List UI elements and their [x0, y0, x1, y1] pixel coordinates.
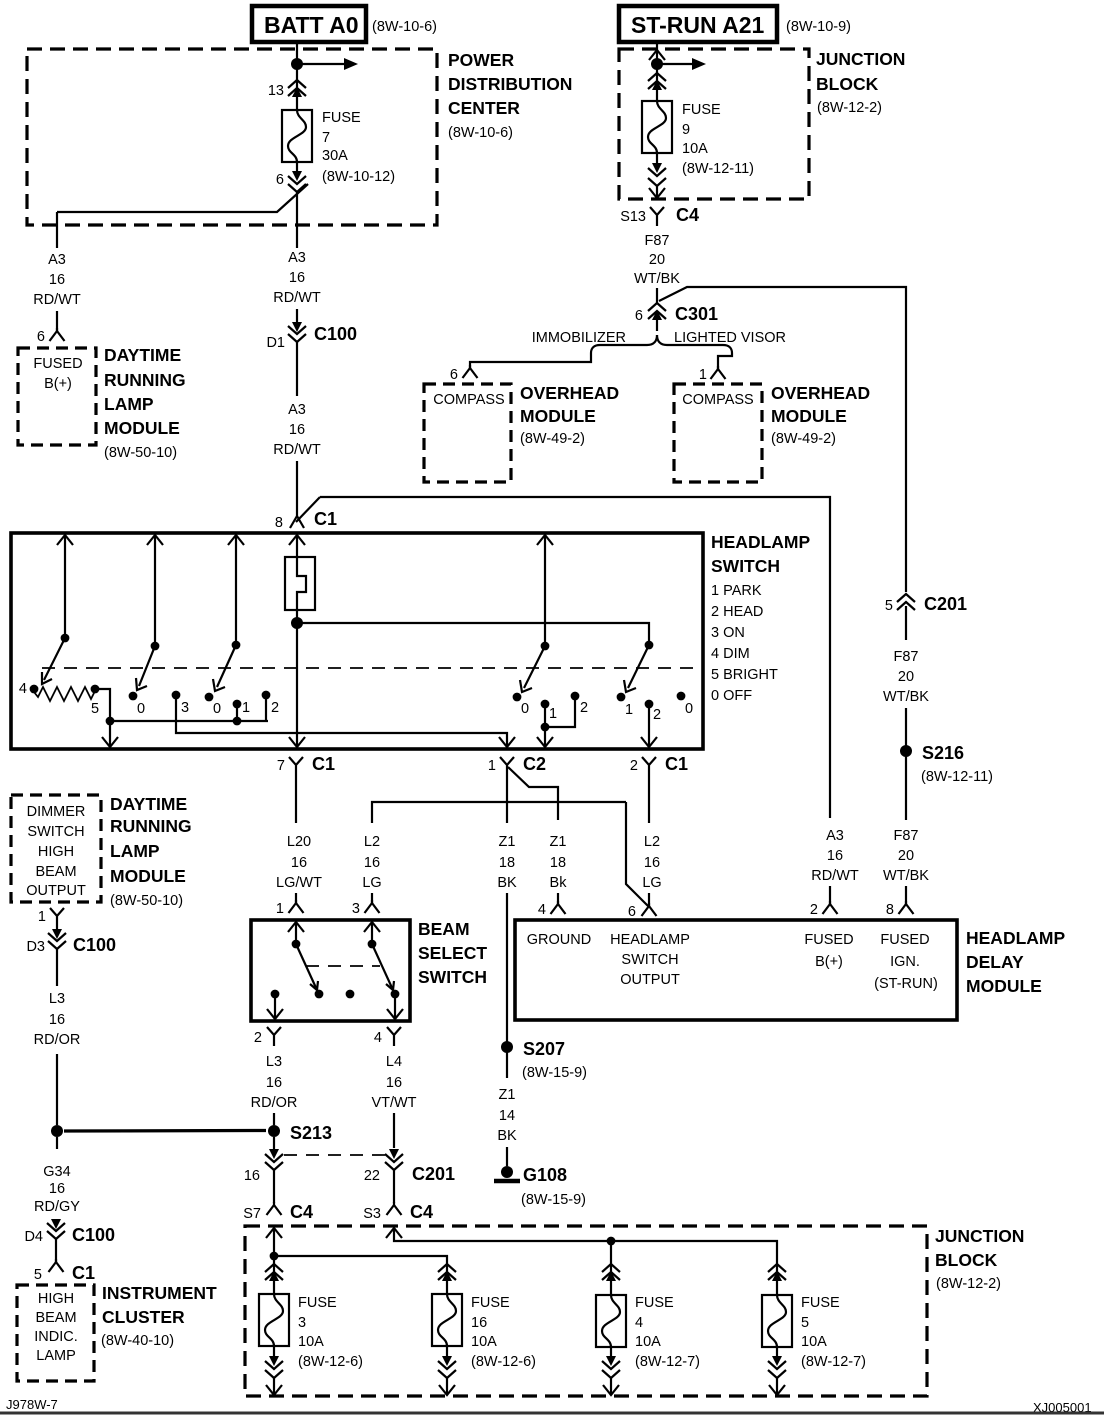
svg-text:(8W-40-10): (8W-40-10)	[101, 1333, 174, 1349]
svg-text:2 HEAD: 2 HEAD	[711, 604, 763, 620]
connector C301 pin 6	[635, 303, 718, 324]
switch arm 2	[136, 646, 155, 690]
wire to junction	[56, 1054, 58, 1125]
svg-text:ST-RUN A21: ST-RUN A21	[631, 12, 765, 38]
svg-text:4 DIM: 4 DIM	[711, 646, 750, 662]
dimmer switch output box (DRL module)	[11, 794, 192, 909]
svg-text:(8W-10-6): (8W-10-6)	[448, 125, 513, 141]
svg-text:F87: F87	[894, 649, 919, 665]
svg-text:C2: C2	[523, 754, 546, 774]
svg-text:(8W-10-12): (8W-10-12)	[322, 169, 395, 185]
svg-text:A3: A3	[48, 252, 66, 268]
wire L2 to delay module pin 6	[648, 893, 650, 906]
svg-text:Z1: Z1	[499, 834, 516, 850]
splice S213	[268, 1123, 332, 1143]
node BATT A0	[252, 6, 437, 42]
wire to C2 output	[544, 727, 546, 748]
wire ST-RUN into junction block	[656, 42, 658, 101]
svg-text:DELAY: DELAY	[966, 952, 1024, 972]
svg-text:16: 16	[244, 1168, 260, 1184]
svg-text:LIGHTED VISOR: LIGHTED VISOR	[674, 330, 786, 346]
fuse F7 30A	[282, 110, 312, 162]
svg-text:FUSE: FUSE	[801, 1295, 840, 1311]
contact 0 (first)	[129, 692, 145, 717]
svg-text:L4: L4	[386, 1054, 402, 1070]
connector C1 pin 5	[34, 1259, 95, 1283]
svg-text:6: 6	[628, 904, 636, 920]
svg-text:C100: C100	[73, 935, 116, 955]
wire to DRL module	[56, 311, 58, 331]
svg-text:C201: C201	[924, 594, 967, 614]
svg-text:DAYTIME: DAYTIME	[104, 345, 181, 365]
svg-text:IMMOBILIZER: IMMOBILIZER	[532, 330, 626, 346]
svg-text:C4: C4	[290, 1202, 313, 1222]
svg-text:G34: G34	[43, 1164, 70, 1180]
pin 4 connector (ground)	[538, 901, 566, 918]
svg-text:MODULE: MODULE	[771, 406, 847, 426]
svg-text:16: 16	[289, 270, 305, 286]
svg-text:A3: A3	[288, 250, 306, 266]
svg-text:6: 6	[450, 367, 458, 383]
arrow tap right	[657, 63, 692, 65]
svg-text:(8W-50-10): (8W-50-10)	[110, 893, 183, 909]
svg-text:6: 6	[276, 172, 284, 188]
svg-text:5 BRIGHT: 5 BRIGHT	[711, 667, 778, 683]
chevrons above fuse 16	[438, 1262, 456, 1294]
svg-text:F87: F87	[645, 233, 670, 249]
svg-text:COMPASS: COMPASS	[682, 392, 753, 408]
svg-text:SWITCH: SWITCH	[418, 967, 487, 987]
beam select dashed link	[306, 965, 380, 967]
wire to C4 S3	[393, 1170, 395, 1203]
chevrons below fuse 4	[602, 1347, 620, 1395]
dashed actuator line in switch	[42, 667, 700, 669]
wire bus to fuse 16	[274, 1256, 447, 1262]
contact 2 (dim circuit)	[545, 692, 588, 727]
svg-text:WT/BK: WT/BK	[634, 271, 680, 287]
instrument cluster (high beam indicator) box	[17, 1283, 217, 1381]
svg-text:A3: A3	[288, 402, 306, 418]
svg-text:3: 3	[298, 1315, 306, 1331]
svg-text:10A: 10A	[471, 1334, 497, 1350]
svg-text:(8W-10-6): (8W-10-6)	[372, 19, 437, 35]
junction node right bus	[607, 1237, 616, 1246]
svg-text:3: 3	[181, 700, 189, 716]
svg-text:30A: 30A	[322, 148, 348, 164]
svg-text:2: 2	[630, 758, 638, 774]
svg-text:1: 1	[276, 901, 284, 917]
svg-text:2: 2	[580, 700, 588, 716]
wire C1-2 down	[648, 776, 650, 823]
svg-text:4: 4	[538, 902, 546, 918]
svg-text:FUSED: FUSED	[880, 932, 929, 948]
beam select pole 1	[288, 922, 304, 948]
svg-text:DISTRIBUTION: DISTRIBUTION	[448, 74, 572, 94]
ground G108	[494, 1165, 586, 1208]
wire to delay module pin 8	[905, 886, 907, 904]
svg-text:LAMP: LAMP	[36, 1348, 76, 1364]
svg-text:5: 5	[801, 1315, 809, 1331]
chevrons above fuse 5	[768, 1262, 786, 1295]
svg-text:HEADLAMP: HEADLAMP	[966, 928, 1065, 948]
svg-text:OVERHEAD: OVERHEAD	[771, 383, 870, 403]
svg-text:(8W-49-2): (8W-49-2)	[771, 431, 836, 447]
chevrons above fuse 9	[648, 73, 666, 90]
overhead module (left compass) box	[424, 383, 619, 482]
svg-text:RUNNING: RUNNING	[110, 816, 192, 836]
svg-text:16: 16	[49, 272, 65, 288]
connector C201 pin 5	[885, 594, 967, 614]
wiper contact element	[285, 557, 315, 623]
switch pole 5 (fed from bus)	[645, 641, 654, 650]
svg-text:0: 0	[213, 701, 221, 717]
wire fuse7 down through PDC	[296, 192, 298, 248]
svg-text:L2: L2	[364, 834, 380, 850]
junction node in PDC	[291, 58, 303, 70]
svg-text:BEAM: BEAM	[35, 1310, 76, 1326]
wire to C4 S7	[273, 1170, 275, 1203]
arrow into junction block border	[649, 50, 665, 60]
wire label L3 16 RD/OR (left)	[34, 991, 81, 1048]
page bottom rule	[0, 1412, 1104, 1415]
svg-text:A3: A3	[826, 828, 844, 844]
pin 6 connector (headlamp switch output)	[628, 903, 657, 920]
headlamp delay module box	[515, 920, 1065, 1020]
svg-text:RD/OR: RD/OR	[34, 1032, 81, 1048]
svg-text:16: 16	[289, 422, 305, 438]
wire C100 down	[296, 342, 298, 396]
svg-text:20: 20	[649, 252, 665, 268]
pin 13 connector chevrons	[268, 80, 306, 99]
svg-text:(8W-15-9): (8W-15-9)	[522, 1065, 587, 1081]
pin 1 connector of right overhead module	[699, 366, 726, 383]
svg-text:D1: D1	[266, 335, 285, 351]
wire to delay module pin 4	[557, 893, 559, 904]
contact 1 (dim circuit)	[541, 700, 557, 732]
svg-text:1: 1	[699, 367, 707, 383]
svg-text:(8W-12-2): (8W-12-2)	[817, 100, 882, 116]
wire label L20 16 LG/WT	[276, 834, 322, 891]
wire to beam select pin 3	[371, 893, 373, 903]
wire C201 down	[905, 606, 907, 640]
svg-text:FUSE: FUSE	[471, 1295, 510, 1311]
switch arm 5	[624, 645, 649, 692]
junction node high beam	[51, 1125, 63, 1137]
svg-text:C1: C1	[665, 754, 688, 774]
wire branch diagonal to left feed	[57, 184, 308, 212]
svg-text:16: 16	[644, 855, 660, 871]
svg-text:LAMP: LAMP	[110, 841, 160, 861]
pin 2 connector beam select	[254, 1027, 281, 1046]
svg-text:(8W-12-2): (8W-12-2)	[936, 1276, 1001, 1292]
svg-text:G108: G108	[523, 1165, 567, 1185]
svg-text:S3: S3	[363, 1206, 381, 1222]
svg-text:C1: C1	[72, 1263, 95, 1283]
svg-text:MODULE: MODULE	[110, 866, 186, 886]
svg-text:HEADLAMP: HEADLAMP	[610, 932, 690, 948]
svg-text:FUSED: FUSED	[33, 356, 82, 372]
wire label F87 20 WT/BK (top)	[634, 233, 680, 287]
svg-text:SWITCH: SWITCH	[27, 824, 84, 840]
net split brace under C301	[591, 335, 657, 355]
svg-text:1: 1	[625, 702, 633, 718]
wire to left compass module	[470, 355, 591, 368]
arrow into JB at S3	[386, 1228, 402, 1238]
svg-text:POWER: POWER	[448, 50, 514, 70]
contact 0 (second)	[205, 693, 221, 717]
svg-text:20: 20	[898, 669, 914, 685]
svg-text:BLOCK: BLOCK	[935, 1250, 998, 1270]
svg-text:D4: D4	[24, 1229, 43, 1245]
svg-text:13: 13	[268, 83, 284, 99]
wire branch low beam to beam select pin 3	[372, 802, 626, 823]
svg-text:J978W-7: J978W-7	[6, 1397, 58, 1412]
pin 2 connector (fused B+)	[810, 901, 838, 918]
svg-text:L3: L3	[49, 991, 65, 1007]
fuse F9 10A	[642, 101, 672, 153]
switch pole wire 2	[147, 535, 163, 650]
beam select arm 1	[296, 944, 318, 990]
wire label G34 16 RD/GY	[34, 1164, 80, 1215]
svg-text:16: 16	[471, 1315, 487, 1331]
svg-text:WT/BK: WT/BK	[883, 868, 929, 884]
wire branch from C1-8 to delay module fused B+	[320, 497, 830, 818]
arrow at junction block lower border	[649, 188, 665, 198]
svg-text:RD/WT: RD/WT	[811, 868, 859, 884]
wire label A3 16 RD/WT (center)	[273, 250, 321, 306]
svg-text:GROUND: GROUND	[527, 932, 591, 948]
svg-text:10A: 10A	[298, 1334, 324, 1350]
pin 6 connector of DRL module	[37, 328, 65, 345]
contact 0 (fourth)	[677, 692, 693, 717]
svg-text:BEAM: BEAM	[418, 919, 470, 939]
svg-text:S213: S213	[290, 1123, 332, 1143]
svg-text:C301: C301	[675, 304, 718, 324]
svg-text:OVERHEAD: OVERHEAD	[520, 383, 619, 403]
wire S7 feed	[273, 1228, 275, 1262]
svg-text:16: 16	[386, 1075, 402, 1091]
svg-text:3: 3	[352, 901, 360, 917]
svg-text:OUTPUT: OUTPUT	[26, 883, 86, 899]
node ST-RUN A21	[619, 6, 851, 42]
svg-text:16: 16	[49, 1012, 65, 1028]
beam select pole 2	[364, 922, 380, 948]
svg-text:S13: S13	[620, 209, 646, 225]
svg-text:INDIC.: INDIC.	[34, 1329, 78, 1345]
svg-text:BK: BK	[497, 875, 517, 891]
svg-text:B(+): B(+)	[815, 954, 843, 970]
chevrons above fuse 3	[265, 1262, 283, 1294]
svg-text:RD/OR: RD/OR	[251, 1095, 298, 1111]
svg-text:14: 14	[499, 1108, 515, 1124]
svg-text:10A: 10A	[635, 1334, 661, 1350]
power distribution center box	[27, 49, 572, 225]
beam select switch box	[251, 919, 487, 1021]
junction in switch	[106, 717, 115, 726]
svg-text:16: 16	[49, 1181, 65, 1197]
svg-text:Z1: Z1	[550, 834, 567, 850]
connector C2 pin 1	[488, 754, 558, 820]
svg-text:Bk: Bk	[550, 875, 568, 891]
svg-text:BLOCK: BLOCK	[816, 74, 879, 94]
svg-text:VT/WT: VT/WT	[371, 1095, 416, 1111]
svg-text:2: 2	[271, 700, 279, 716]
connector C1 pin 8	[275, 497, 337, 531]
svg-text:RD/WT: RD/WT	[273, 290, 321, 306]
splice S207	[501, 1039, 587, 1081]
wire down to C1-7 arrow	[109, 721, 111, 748]
wire label Z1 18 BK	[497, 834, 517, 891]
pin 6 connector of left overhead module	[450, 365, 478, 383]
svg-text:LG: LG	[642, 875, 661, 891]
wire to S216	[905, 708, 907, 748]
svg-text:D3: D3	[26, 939, 45, 955]
svg-text:S216: S216	[922, 743, 964, 763]
splice S216	[900, 743, 993, 785]
fuse F16 10A	[432, 1294, 462, 1346]
wire branch from C301 to right riser	[659, 287, 906, 592]
svg-text:7: 7	[322, 130, 330, 146]
svg-text:C1: C1	[312, 754, 335, 774]
svg-text:0: 0	[521, 701, 529, 717]
svg-text:CENTER: CENTER	[448, 98, 520, 118]
svg-text:INSTRUMENT: INSTRUMENT	[102, 1283, 217, 1303]
svg-text:1: 1	[488, 758, 496, 774]
svg-text:5: 5	[91, 701, 99, 717]
svg-text:C4: C4	[676, 205, 699, 225]
wire label L3 16 RD/OR (below)	[251, 1054, 298, 1111]
svg-text:IGN.: IGN.	[890, 954, 920, 970]
svg-text:8: 8	[275, 515, 283, 531]
svg-text:FUSE: FUSE	[298, 1295, 337, 1311]
fuse F4 10A	[596, 1295, 626, 1347]
svg-text:L2: L2	[644, 834, 660, 850]
connector C100 pin D1	[266, 322, 357, 351]
wire contact to pin 4	[394, 994, 396, 1020]
svg-text:FUSE: FUSE	[635, 1295, 674, 1311]
wire label A3 16 RD/WT (right branch)	[811, 828, 859, 884]
wire Z1 down to S207	[506, 893, 508, 1042]
svg-text:(8W-12-11): (8W-12-11)	[921, 769, 993, 785]
wire wiper to C1-7	[296, 623, 298, 748]
switch pole wire 3	[228, 535, 244, 649]
svg-text:MODULE: MODULE	[966, 976, 1042, 996]
svg-text:JUNCTION: JUNCTION	[816, 49, 905, 69]
wire contact5 to output	[95, 689, 110, 721]
svg-text:10A: 10A	[682, 141, 708, 157]
headlamp switch box	[11, 532, 810, 749]
wire label L2 16 LG (left)	[362, 834, 381, 891]
connector C4 pin S7	[243, 1202, 313, 1222]
svg-text:6: 6	[37, 329, 45, 345]
wire D4 down	[55, 1239, 57, 1262]
svg-text:C1: C1	[314, 509, 337, 529]
wire label L2 16 LG (right)	[642, 834, 661, 891]
contact 4	[19, 681, 38, 697]
svg-text:RUNNING: RUNNING	[104, 370, 186, 390]
svg-text:0: 0	[137, 701, 145, 717]
wire to beam select pin 1	[295, 893, 297, 903]
svg-text:BATT A0: BATT A0	[264, 12, 359, 38]
svg-text:2: 2	[254, 1030, 262, 1046]
wire exit junction block	[656, 186, 658, 198]
svg-text:BEAM: BEAM	[35, 864, 76, 880]
fuse F3 10A	[259, 1294, 289, 1346]
svg-text:16: 16	[266, 1075, 282, 1091]
connector C100 pin D4	[24, 1219, 115, 1245]
connector C1 pin 2	[630, 754, 688, 776]
contact 2 (beam out)	[641, 700, 661, 748]
switch pole wire 1	[57, 535, 73, 642]
connector C201 pin 16	[244, 1137, 283, 1184]
svg-text:HIGH: HIGH	[38, 1291, 74, 1307]
wire S216 down	[905, 755, 907, 820]
chevrons below fuse 5	[768, 1347, 786, 1395]
svg-text:LG: LG	[362, 875, 381, 891]
wire label Z1 14 BK	[497, 1087, 517, 1144]
svg-text:4: 4	[374, 1030, 382, 1046]
svg-text:C100: C100	[72, 1225, 115, 1245]
svg-text:B(+): B(+)	[44, 376, 72, 392]
contact 2 (head)	[262, 691, 279, 721]
junction block box (top)	[619, 49, 905, 199]
svg-text:1 PARK: 1 PARK	[711, 583, 762, 599]
arrow tap to other circuits	[297, 63, 344, 65]
svg-text:4: 4	[19, 681, 27, 697]
svg-text:FUSE: FUSE	[322, 110, 361, 126]
wire label Z1 18 Bk (stub branch)	[550, 834, 568, 891]
wire label L4 16 VT/WT	[371, 1054, 416, 1111]
svg-text:FUSE: FUSE	[682, 102, 721, 118]
junction below wiper	[291, 617, 303, 629]
pin 4 connector beam select	[374, 1027, 401, 1046]
svg-text:(8W-12-6): (8W-12-6)	[471, 1354, 536, 1370]
svg-text:HIGH: HIGH	[38, 844, 74, 860]
svg-text:10A: 10A	[801, 1334, 827, 1350]
svg-text:(8W-12-7): (8W-12-7)	[635, 1354, 700, 1370]
svg-text:F87: F87	[894, 828, 919, 844]
chevrons below fuse 9	[648, 153, 666, 186]
contact 5	[91, 685, 100, 717]
svg-text:4: 4	[635, 1315, 643, 1331]
connector C201 pin 22	[364, 1149, 455, 1184]
svg-text:SWITCH: SWITCH	[621, 952, 678, 968]
connector C100 pin D3	[26, 927, 116, 955]
wire to C301	[656, 288, 658, 303]
svg-text:(8W-12-7): (8W-12-7)	[801, 1354, 866, 1370]
svg-text:WT/BK: WT/BK	[883, 689, 929, 705]
wire stub to ground	[506, 1147, 508, 1166]
svg-text:1: 1	[38, 909, 46, 925]
wire C301 stub below	[656, 313, 658, 331]
svg-text:L20: L20	[287, 834, 311, 850]
wire label A3 16 RD/WT (below C100)	[273, 402, 321, 458]
svg-text:0 OFF: 0 OFF	[711, 688, 752, 704]
svg-text:5: 5	[34, 1267, 42, 1283]
wire contact 3 to C2-1	[176, 695, 507, 748]
svg-text:RD/GY: RD/GY	[34, 1199, 80, 1215]
svg-text:1: 1	[242, 700, 250, 716]
wire to delay module pin 2	[829, 886, 831, 904]
svg-text:(8W-10-9): (8W-10-9)	[786, 19, 851, 35]
wire left feed down	[56, 212, 58, 248]
svg-text:LG/WT: LG/WT	[276, 875, 322, 891]
wire to headlamp switch C1 pin 8	[296, 461, 298, 516]
svg-text:18: 18	[499, 855, 515, 871]
svg-text:C201: C201	[412, 1164, 455, 1184]
svg-text:16: 16	[827, 848, 843, 864]
pin 6 connector chevrons	[276, 162, 306, 192]
